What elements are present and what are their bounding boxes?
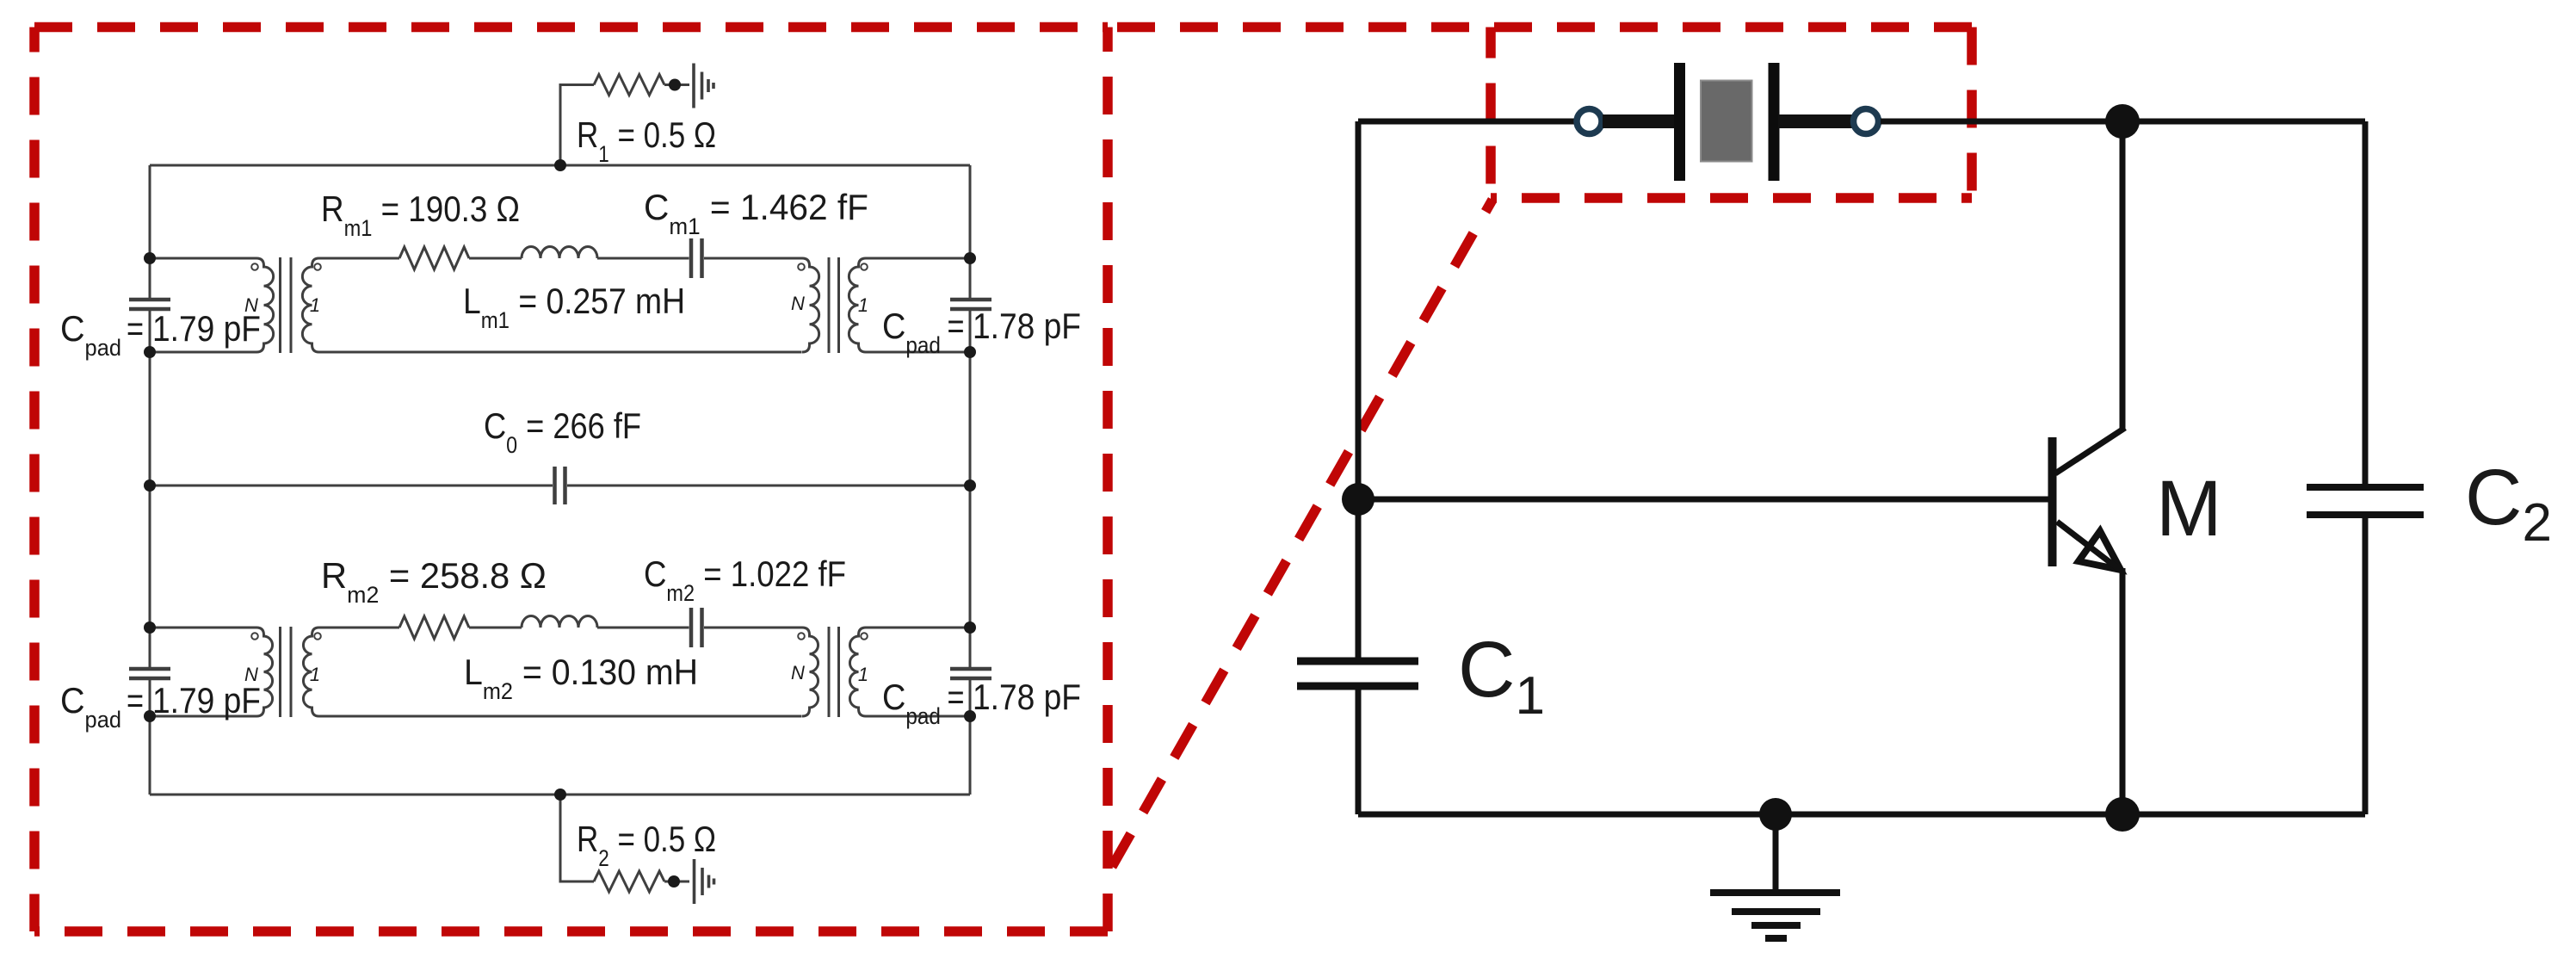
svg-text:Cpad: Cpad [882, 306, 941, 358]
svg-text:C2: C2 [2465, 454, 2552, 553]
svg-text:1.79 pF: 1.79 pF [152, 681, 261, 721]
svg-text:Lm1 = 0.257 mH: Lm1 = 0.257 mH [463, 281, 685, 333]
svg-text:=: = [127, 309, 144, 349]
svg-text:M: M [2156, 465, 2222, 553]
svg-text:Cpad: Cpad [60, 308, 121, 361]
svg-text:Rm1 = 190.3 Ω: Rm1 = 190.3 Ω [321, 189, 520, 242]
svg-text:Cm1 = 1.462 fF: Cm1 = 1.462 fF [644, 187, 868, 239]
svg-text:1.78 pF: 1.78 pF [973, 677, 1081, 718]
svg-text:N: N [791, 662, 805, 683]
svg-text:C1: C1 [1458, 626, 1545, 726]
svg-text:1.78 pF: 1.78 pF [973, 306, 1081, 347]
svg-text:1: 1 [858, 664, 868, 685]
svg-text:1: 1 [310, 294, 320, 316]
svg-text:Cpad: Cpad [882, 677, 941, 729]
svg-text:=: = [948, 306, 965, 347]
svg-text:=: = [127, 681, 144, 721]
svg-text:R1 = 0.5 Ω: R1 = 0.5 Ω [577, 115, 716, 167]
svg-text:Rm2 = 258.8 Ω: Rm2 = 258.8 Ω [321, 555, 547, 608]
svg-text:Cm2 = 1.022 fF: Cm2 = 1.022 fF [644, 554, 846, 607]
svg-text:Lm2 = 0.130 mH: Lm2 = 0.130 mH [464, 652, 698, 704]
svg-text:Cpad: Cpad [60, 680, 121, 733]
svg-text:N: N [791, 293, 805, 314]
svg-text:1.79 pF: 1.79 pF [152, 309, 261, 349]
svg-text:=: = [948, 677, 965, 718]
svg-text:1: 1 [310, 664, 320, 685]
svg-text:1: 1 [858, 294, 868, 316]
svg-text:C0 = 266 fF: C0 = 266 fF [484, 407, 641, 459]
